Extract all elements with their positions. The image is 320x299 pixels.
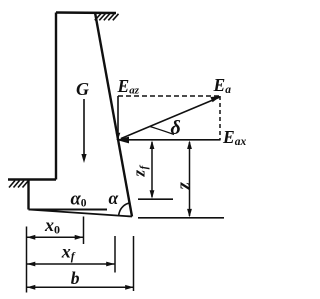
svg-text:z: z — [174, 182, 195, 191]
z_f bottom reference line — [138, 198, 173, 200]
xf right arrow — [106, 262, 115, 267]
z_f top arrow — [150, 141, 155, 150]
wall stem left face — [55, 13, 57, 180]
svg-text:α0: α0 — [71, 190, 87, 210]
extension line b right — [133, 236, 135, 291]
svg-text:Eax: Eax — [222, 127, 246, 148]
ground surface line left — [8, 178, 56, 180]
wall top edge and backfill ground surface line — [56, 11, 116, 14]
extension line xf right — [114, 236, 116, 273]
z bottom arrow — [187, 209, 192, 218]
horizontal reference line at base — [29, 209, 108, 211]
svg-text:G: G — [76, 79, 89, 99]
xf dimension line — [27, 263, 116, 265]
E_a arrowhead at tip (points up-right) — [210, 96, 220, 102]
svg-text:Eaz: Eaz — [117, 76, 140, 97]
E_a force line (resultant) — [121, 97, 220, 139]
E_az force line (vertical) — [117, 96, 119, 140]
x0 right arrow — [75, 235, 84, 240]
extension line left (x0/xf/b) — [26, 227, 28, 293]
z dimension line — [189, 142, 191, 216]
wall base (inclined) — [29, 210, 133, 217]
b right arrow — [125, 285, 134, 290]
extension line x0 right — [83, 217, 85, 245]
svg-text:x0: x0 — [44, 215, 60, 237]
E_az arrowhead at wall — [116, 133, 121, 140]
z_f dimension line — [151, 142, 153, 197]
delta angle arc — [150, 127, 174, 135]
footing left edge — [27, 180, 29, 210]
dashed line right of force rectangle — [219, 96, 221, 140]
b left arrow — [27, 285, 36, 290]
wall back face (sloped) — [95, 13, 132, 217]
angle arc alpha — [119, 203, 129, 216]
z bottom reference line — [138, 217, 224, 219]
x0 left arrow — [27, 235, 36, 240]
svg-text:zf: zf — [130, 164, 151, 177]
ground hatching right (backfill surface) — [95, 14, 119, 21]
weight force G arrow — [83, 99, 85, 158]
x0 dimension line — [27, 236, 84, 238]
svg-text:b: b — [71, 268, 80, 288]
svg-text:α: α — [109, 188, 119, 208]
E_ax force line (horizontal) — [120, 139, 221, 141]
svg-text:δ: δ — [171, 117, 181, 139]
G arrowhead — [81, 154, 86, 163]
svg-text:Ea: Ea — [213, 75, 232, 96]
svg-text:xf: xf — [61, 242, 76, 264]
ground hatching left — [9, 181, 29, 188]
b dimension line — [27, 286, 135, 288]
z_f bottom arrow — [150, 190, 155, 199]
E_ax arrowhead at wall — [116, 137, 129, 144]
z top arrow — [187, 141, 192, 150]
xf left arrow — [27, 262, 36, 267]
dashed line top of force rectangle — [118, 95, 220, 97]
